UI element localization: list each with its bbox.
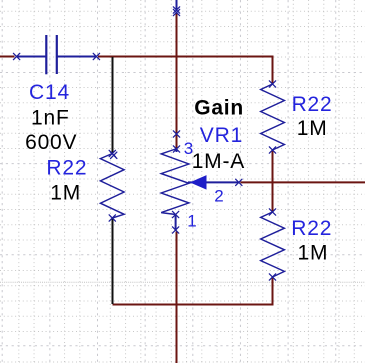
svg-text:R22: R22	[46, 157, 87, 180]
svg-text:Gain: Gain	[194, 96, 244, 119]
svg-text:2: 2	[214, 186, 224, 205]
svg-text:1M: 1M	[50, 182, 81, 205]
svg-text:1: 1	[187, 212, 197, 231]
svg-text:3: 3	[184, 139, 194, 158]
svg-text:VR1: VR1	[200, 124, 243, 147]
svg-text:600V: 600V	[25, 131, 77, 154]
svg-text:R22: R22	[291, 217, 332, 240]
svg-text:1M-A: 1M-A	[192, 150, 245, 173]
svg-text:1M: 1M	[298, 242, 329, 265]
svg-text:R22: R22	[292, 93, 333, 116]
svg-text:1M: 1M	[297, 117, 328, 140]
svg-text:1nF: 1nF	[31, 106, 70, 129]
svg-text:C14: C14	[29, 81, 70, 104]
